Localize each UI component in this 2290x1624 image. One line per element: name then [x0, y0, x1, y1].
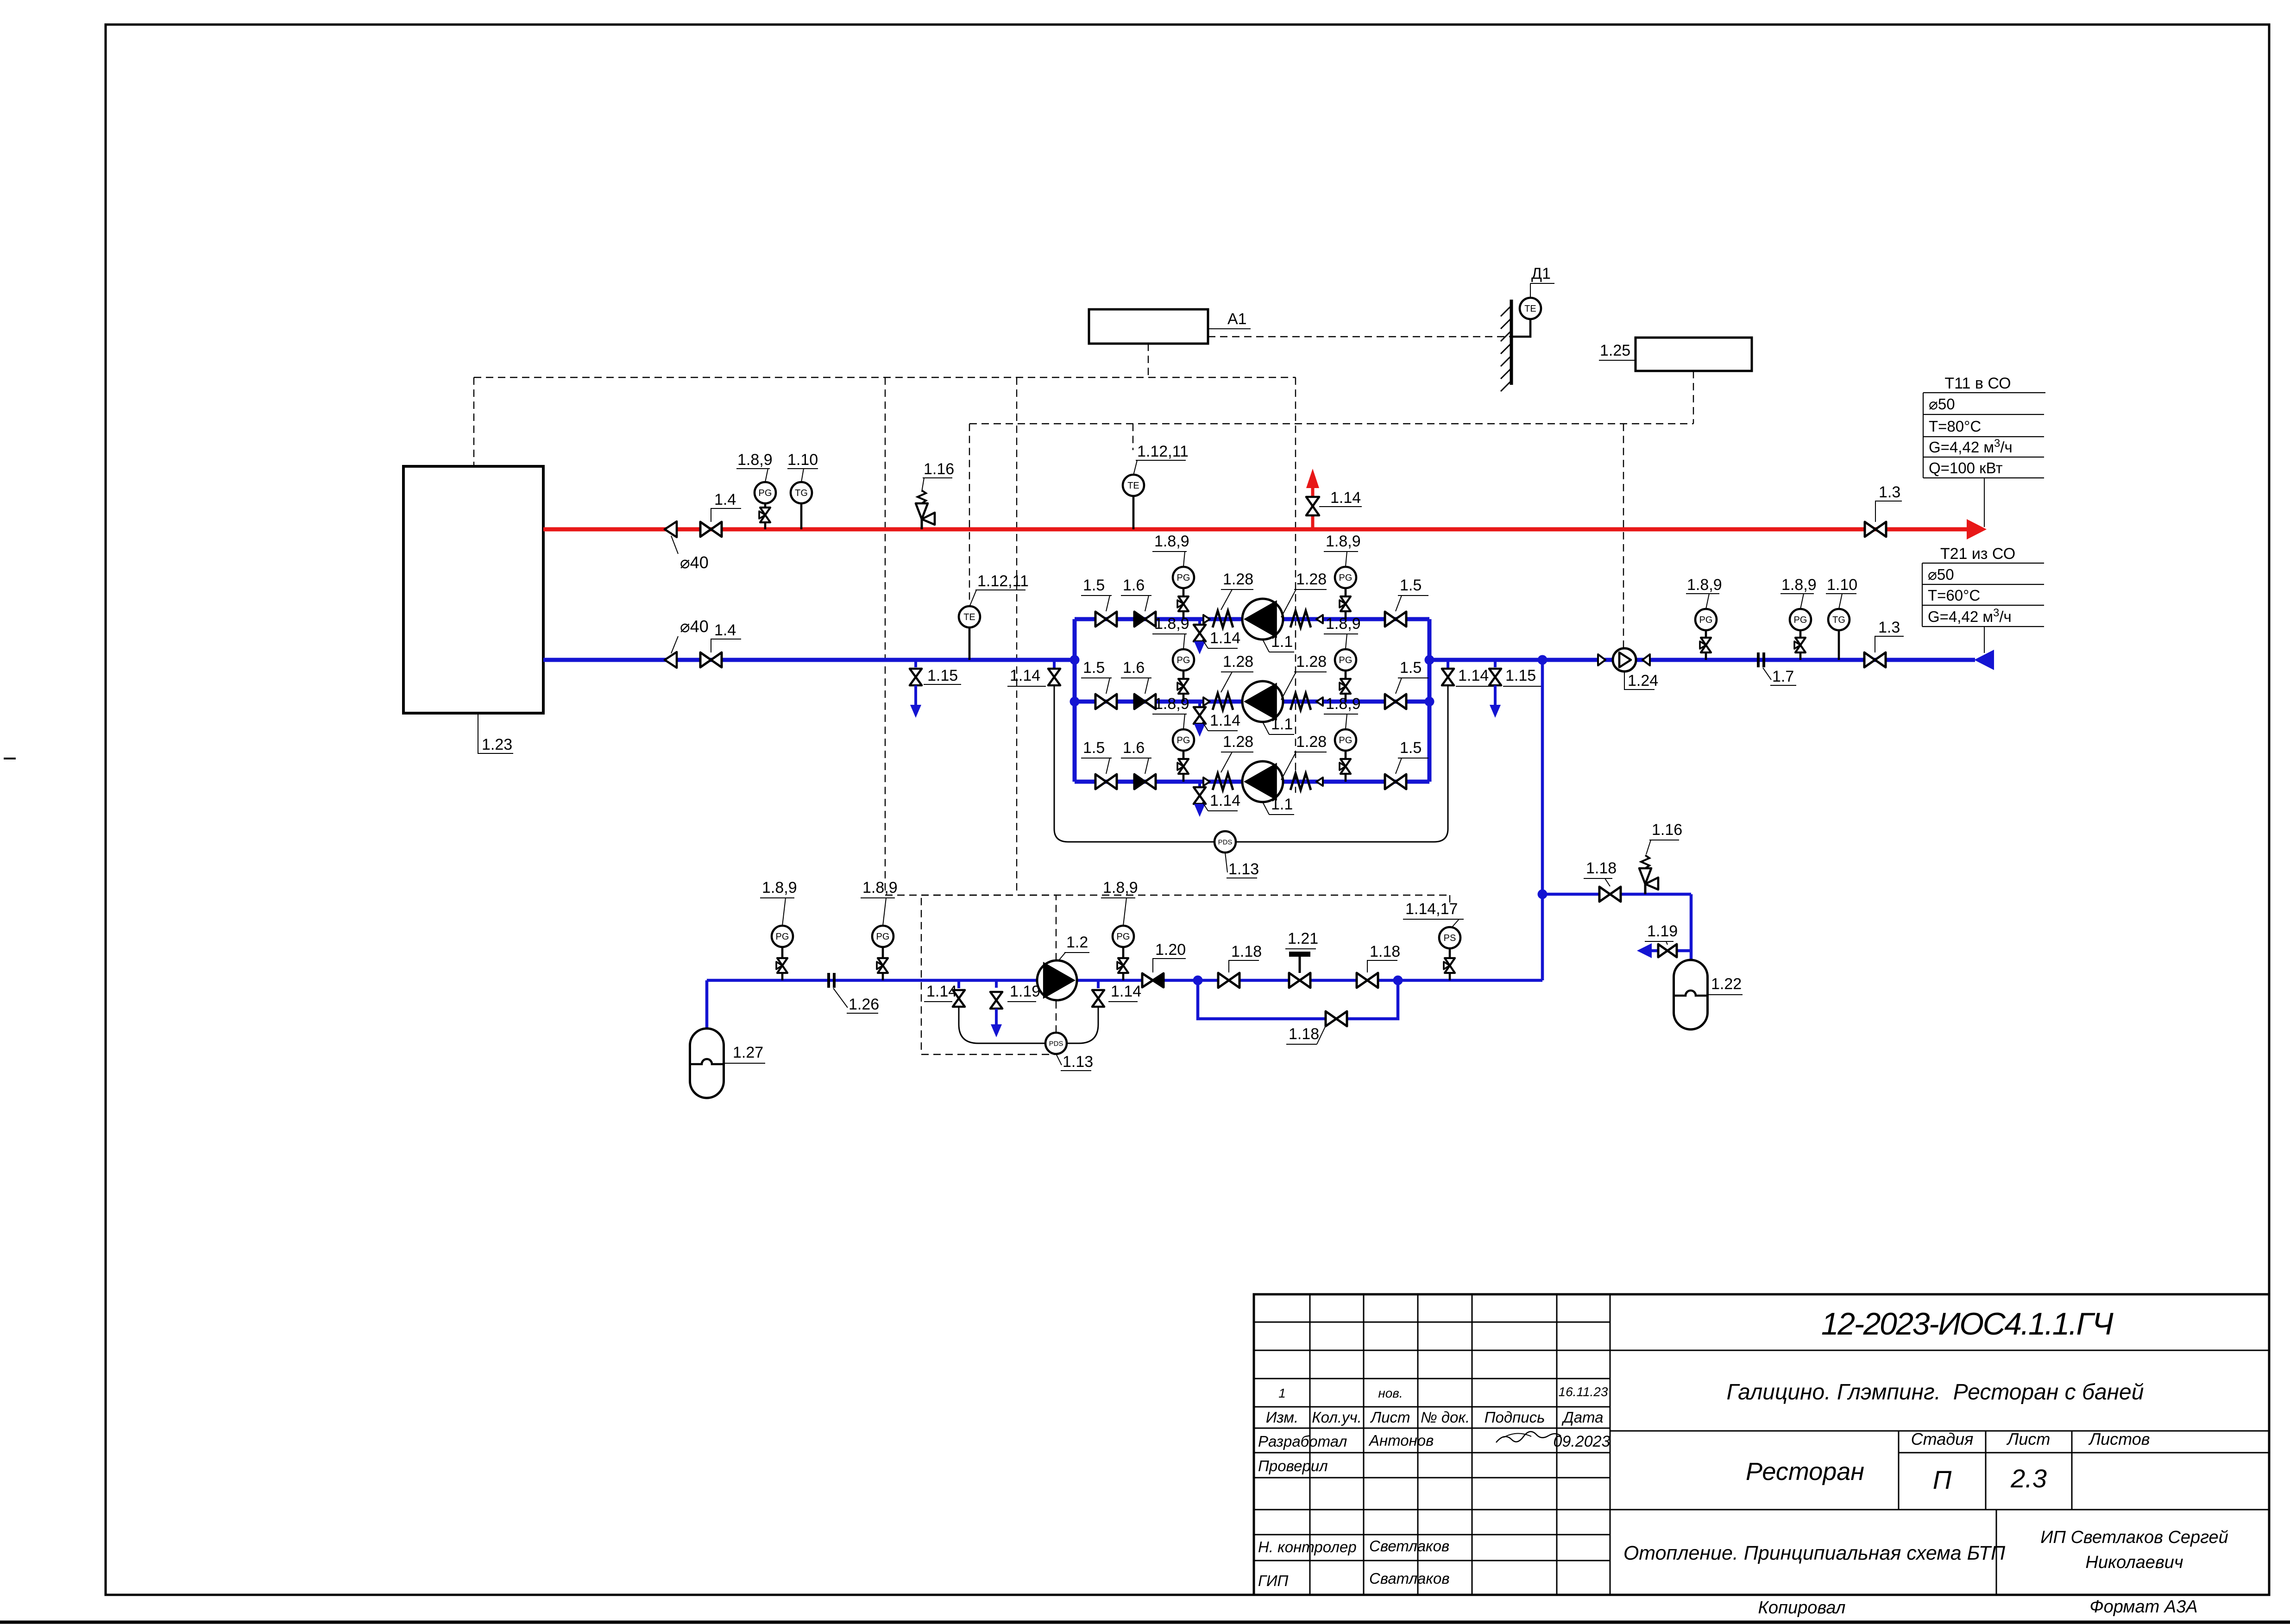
svg-text:1.6: 1.6: [1123, 577, 1145, 594]
svg-text:09.2023: 09.2023: [1554, 1433, 1611, 1450]
svg-text:PG: PG: [1699, 615, 1713, 625]
svg-text:1.27: 1.27: [733, 1044, 763, 1061]
svg-text:1.3: 1.3: [1879, 483, 1900, 501]
svg-text:1.14: 1.14: [1210, 629, 1240, 647]
svg-text:⌀40: ⌀40: [680, 617, 709, 636]
svg-text:PG: PG: [776, 932, 789, 942]
svg-text:1.8,9: 1.8,9: [862, 879, 898, 897]
svg-text:PDS: PDS: [1218, 838, 1233, 846]
svg-text:Копировал: Копировал: [1758, 1598, 1846, 1618]
svg-text:PG: PG: [1339, 573, 1353, 583]
svg-text:PDS: PDS: [1049, 1040, 1063, 1047]
svg-text:Изм.: Изм.: [1266, 1409, 1298, 1426]
svg-text:А1: А1: [1227, 310, 1247, 328]
svg-text:PG: PG: [1794, 615, 1807, 625]
svg-text:1.13: 1.13: [1063, 1053, 1093, 1071]
svg-text:Сватлаков: Сватлаков: [1369, 1570, 1450, 1587]
svg-text:1.23: 1.23: [482, 736, 512, 753]
svg-text:1.5: 1.5: [1083, 577, 1105, 594]
svg-text:1.16: 1.16: [924, 460, 954, 478]
svg-text:1.28: 1.28: [1223, 653, 1253, 671]
svg-text:1.26: 1.26: [849, 996, 879, 1013]
svg-text:1.15: 1.15: [927, 667, 958, 684]
svg-text:12-2023-ИОС4.1.1.ГЧ: 12-2023-ИОС4.1.1.ГЧ: [1821, 1306, 2114, 1342]
svg-text:PG: PG: [1177, 573, 1190, 583]
svg-text:1.7: 1.7: [1772, 668, 1794, 685]
svg-text:Лист: Лист: [1370, 1409, 1410, 1426]
svg-text:1.14: 1.14: [1210, 792, 1240, 809]
svg-text:Галицино. Глэмпинг. Ресторан: Галицино. Глэмпинг. Ресторан с баней: [1727, 1380, 2144, 1405]
svg-text:Д1: Д1: [1531, 265, 1551, 282]
svg-text:TG: TG: [795, 488, 808, 498]
svg-text:1.10: 1.10: [1827, 576, 1857, 594]
svg-text:1.19: 1.19: [1010, 983, 1040, 1000]
svg-text:1.2: 1.2: [1066, 934, 1088, 951]
svg-text:1.5: 1.5: [1083, 739, 1105, 757]
svg-text:Н. контролер: Н. контролер: [1258, 1538, 1357, 1555]
svg-text:1.8,9: 1.8,9: [1103, 879, 1138, 897]
svg-text:1.14: 1.14: [1111, 983, 1141, 1000]
svg-text:Формат А3А: Формат А3А: [2089, 1597, 2197, 1617]
svg-text:⌀50: ⌀50: [1928, 566, 1954, 583]
svg-text:PG: PG: [1339, 735, 1353, 746]
svg-text:1.8,9: 1.8,9: [737, 451, 773, 469]
svg-text:1.14,17: 1.14,17: [1405, 900, 1458, 918]
svg-text:2.3: 2.3: [2010, 1464, 2047, 1493]
svg-text:Ресторан: Ресторан: [1746, 1458, 1864, 1486]
svg-text:1.10: 1.10: [787, 451, 818, 469]
svg-text:TE: TE: [1127, 481, 1139, 491]
svg-text:1.8,9: 1.8,9: [1154, 533, 1189, 550]
svg-text:G=4,42 м3/ч: G=4,42 м3/ч: [1928, 607, 2012, 625]
svg-text:1.8,9: 1.8,9: [1154, 615, 1189, 633]
svg-text:1.25: 1.25: [1600, 342, 1630, 359]
svg-text:1.18: 1.18: [1586, 859, 1617, 877]
svg-text:Листов: Листов: [2088, 1430, 2150, 1448]
svg-text:1.20: 1.20: [1155, 941, 1186, 959]
svg-text:PG: PG: [1339, 655, 1353, 665]
svg-text:T=80°C: T=80°C: [1929, 418, 1981, 435]
svg-text:1.28: 1.28: [1296, 571, 1327, 588]
svg-text:PG: PG: [1177, 735, 1190, 746]
svg-text:1.28: 1.28: [1296, 733, 1327, 751]
svg-text:⌀40: ⌀40: [680, 553, 709, 572]
svg-text:Кол.уч.: Кол.уч.: [1312, 1409, 1362, 1426]
svg-text:Стадия: Стадия: [1911, 1430, 1974, 1448]
svg-text:Q=100 кВт: Q=100 кВт: [1929, 459, 2003, 477]
svg-text:1.8,9: 1.8,9: [762, 879, 797, 897]
svg-text:1.5: 1.5: [1400, 577, 1422, 594]
svg-text:Проверил: Проверил: [1258, 1457, 1328, 1474]
svg-text:T21 из СО: T21 из СО: [1940, 545, 2015, 563]
svg-text:Дата: Дата: [1561, 1409, 1603, 1426]
svg-text:1.13: 1.13: [1228, 860, 1259, 878]
svg-text:1.14: 1.14: [1458, 667, 1489, 684]
svg-text:Лист: Лист: [2007, 1430, 2051, 1448]
svg-text:1.24: 1.24: [1628, 672, 1658, 690]
svg-text:PS: PS: [1444, 933, 1456, 943]
svg-text:PG: PG: [876, 932, 890, 942]
svg-text:1.12,11: 1.12,11: [1137, 443, 1189, 460]
svg-text:ИП Светлаков Сергей: ИП Светлаков Сергей: [2040, 1528, 2228, 1547]
svg-text:1.15: 1.15: [1505, 667, 1536, 684]
svg-text:Антонов: Антонов: [1368, 1432, 1434, 1449]
svg-text:1: 1: [1278, 1386, 1286, 1400]
svg-text:1.8,9: 1.8,9: [1781, 576, 1817, 594]
svg-text:1.18: 1.18: [1289, 1025, 1319, 1043]
svg-text:T11 в СО: T11 в СО: [1944, 375, 2011, 392]
svg-text:Отопление. Принципиальная схем: Отопление. Принципиальная схема БТП: [1623, 1542, 2006, 1564]
svg-text:1.5: 1.5: [1083, 659, 1105, 677]
svg-text:Николаевич: Николаевич: [2085, 1553, 2183, 1572]
svg-text:1.8,9: 1.8,9: [1154, 695, 1189, 713]
svg-text:1.4: 1.4: [714, 491, 736, 508]
svg-text:TE: TE: [1524, 304, 1536, 314]
svg-text:1.16: 1.16: [1652, 821, 1682, 839]
svg-text:1.8,9: 1.8,9: [1326, 695, 1361, 713]
svg-text:1.21: 1.21: [1288, 930, 1318, 947]
svg-text:TE: TE: [963, 612, 975, 622]
svg-text:П: П: [1933, 1465, 1952, 1494]
svg-text:1.5: 1.5: [1400, 739, 1422, 757]
svg-text:1.5: 1.5: [1400, 659, 1422, 677]
svg-text:1.4: 1.4: [714, 621, 736, 639]
svg-text:1.8,9: 1.8,9: [1687, 576, 1722, 594]
svg-text:TG: TG: [1832, 615, 1845, 625]
svg-text:1.22: 1.22: [1711, 975, 1742, 993]
svg-text:PG: PG: [1177, 655, 1190, 665]
svg-text:1.14: 1.14: [1330, 489, 1361, 507]
svg-text:G=4,42 м3/ч: G=4,42 м3/ч: [1929, 437, 2013, 456]
svg-text:1.1: 1.1: [1271, 715, 1293, 733]
svg-text:Подпись: Подпись: [1485, 1409, 1545, 1426]
svg-text:1.28: 1.28: [1223, 571, 1253, 588]
svg-text:1.28: 1.28: [1223, 733, 1253, 751]
svg-text:1.14: 1.14: [1010, 667, 1040, 684]
svg-text:1.19: 1.19: [1647, 922, 1678, 940]
svg-text:Светлаков: Светлаков: [1369, 1537, 1449, 1555]
svg-text:1.1: 1.1: [1271, 796, 1293, 813]
svg-text:1.1: 1.1: [1271, 633, 1293, 651]
svg-text:№ док.: № док.: [1421, 1409, 1470, 1426]
svg-text:1.12,11: 1.12,11: [977, 572, 1029, 590]
svg-text:16.11.23: 16.11.23: [1559, 1385, 1608, 1399]
svg-text:PG: PG: [1117, 932, 1130, 942]
svg-text:1.8,9: 1.8,9: [1326, 615, 1361, 633]
svg-text:PG: PG: [759, 488, 772, 498]
svg-text:ГИП: ГИП: [1258, 1572, 1289, 1589]
svg-text:нов.: нов.: [1378, 1386, 1403, 1400]
svg-text:1.6: 1.6: [1123, 659, 1145, 677]
svg-text:Разработал: Разработал: [1258, 1433, 1347, 1450]
svg-text:1.18: 1.18: [1370, 943, 1400, 960]
svg-text:1.14: 1.14: [1210, 712, 1240, 729]
svg-text:⌀50: ⌀50: [1929, 395, 1955, 413]
svg-text:1.6: 1.6: [1123, 739, 1145, 757]
svg-text:1.28: 1.28: [1296, 653, 1327, 671]
svg-text:T=60°C: T=60°C: [1928, 587, 1980, 604]
svg-text:1.8,9: 1.8,9: [1326, 533, 1361, 550]
svg-text:1.14: 1.14: [926, 983, 957, 1000]
svg-text:1.3: 1.3: [1878, 619, 1900, 636]
svg-text:1.18: 1.18: [1231, 943, 1262, 960]
